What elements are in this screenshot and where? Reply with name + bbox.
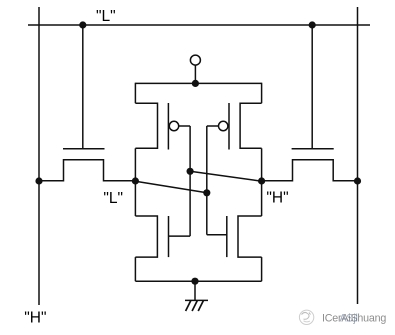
wire bit line right [357,7,359,304]
wire VDD rail [135,82,261,84]
svg-text:"L": "L" [103,190,123,207]
wire left pulldown to ground rail [134,257,136,281]
wire ground rail [135,280,261,282]
node bit line left / access source [35,177,42,184]
watermark text ICerAiShuang [322,312,386,324]
svg-text:ASjl: ASjl [340,312,358,324]
svg-text:"H": "H" [24,310,46,327]
transistor N2 right NMOS [207,216,262,257]
wire right pulldown to ground rail [261,257,263,281]
node junction word line / right access gate [309,21,316,28]
ground symbol [185,281,208,311]
wire left storage node column [134,148,136,216]
wire word line WL [28,24,370,26]
node H storage [258,177,265,184]
wire cross-couple H to left gate [190,171,262,181]
svg-text:"L": "L" [96,8,116,25]
node L storage [132,177,139,184]
svg-text:"H": "H" [266,190,288,207]
transistor P2 right PMOS [207,83,262,150]
node left gate column / cross-couple [187,168,194,175]
transistor Q6 right access NMOS [262,25,358,181]
wire left inverter gate column [189,126,191,236]
node junction word line / left access gate [79,21,86,28]
node ground rail junction [191,278,198,285]
power supply terminal [190,55,200,83]
transistor Q5 left access NMOS [39,25,135,181]
wire right inverter gate column [206,126,208,235]
wire cross-couple L to right gate [135,181,206,193]
node supply / VDD rail junction [192,80,199,87]
transistor P1 left PMOS [135,83,190,150]
transistor N1 left NMOS [135,216,190,257]
watermark logo [299,310,313,324]
wire bit line left [38,7,40,305]
wire right storage node column [261,148,263,216]
node right gate column / cross-couple [203,189,210,196]
node bit line right / access source [354,177,361,184]
